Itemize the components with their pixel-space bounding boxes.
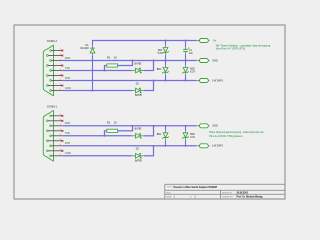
schottky diode D3 BAT85: [132, 88, 144, 93]
svg-text:GND: GND: [212, 59, 218, 62]
svg-text:DTR: DTR: [65, 141, 70, 145]
port terminal 1-W DATA: [196, 79, 209, 83]
schottky diode D2 BAT85: [132, 134, 144, 139]
pin 5: [50, 154, 62, 156]
svg-text:CONN-1: CONN-1: [47, 39, 58, 43]
wire riser GND row to DATA row: [153, 146, 155, 156]
junction: [185, 125, 187, 127]
svg-text:Ohne Spannungsversorgung - Dat: Ohne Spannungsversorgung - Data wird übe…: [209, 131, 264, 134]
junction: [165, 60, 167, 62]
no-connect pin 7: [62, 130, 64, 132]
svg-text:6: 6: [60, 54, 61, 56]
junction riser/DATA: [153, 80, 155, 82]
no-connect pin 9: [62, 150, 64, 152]
wire riser TXD to RXD row: [153, 126, 155, 136]
no-connect pin 7: [62, 65, 64, 67]
svg-text:RXD: RXD: [65, 121, 71, 125]
wire riser GND row to DATA row: [153, 81, 155, 91]
no-connect pin 8: [62, 140, 64, 142]
junction: [165, 145, 167, 147]
port terminal GND: [196, 59, 209, 63]
connector CONN-1 (DB9): [43, 110, 53, 161]
svg-text:1-W DATA: 1-W DATA: [212, 79, 223, 82]
wire GND pin net: [62, 155, 132, 157]
svg-text:über Pins 4+7 (DTR, RTS): über Pins 4+7 (DTR, RTS): [216, 48, 246, 51]
wire TXD net: [62, 70, 132, 72]
svg-text:1K: 1K: [114, 121, 117, 125]
resistor R1: [107, 64, 118, 67]
svg-text:GND: GND: [212, 125, 218, 128]
junction: [165, 80, 167, 82]
no-connect pin 6: [62, 120, 64, 122]
no-connect pin 6: [62, 55, 64, 57]
zener diode BD2: [182, 61, 188, 81]
wire R1 jog: [104, 131, 106, 136]
no-connect pin 8: [62, 75, 64, 77]
svg-text:7: 7: [60, 129, 61, 131]
pin 4: [50, 79, 62, 81]
junction R1/RXD: [132, 125, 134, 127]
pin 1: [50, 49, 62, 51]
schottky diode D3 BAT85: [132, 154, 144, 159]
svg-text:9: 9: [60, 84, 61, 86]
port terminal V+: [196, 39, 209, 43]
schottky diode D2 BAT85: [132, 68, 144, 73]
wire RXD / GND net: [62, 125, 196, 127]
capacitor C1: [183, 41, 189, 61]
svg-text:Passive 1-Wire Serial Adapter: Passive 1-Wire Serial Adapter DS9097: [174, 186, 218, 189]
svg-text:Prof. Dr. Michael Wasag: Prof. Dr. Michael Wasag: [237, 197, 264, 199]
wire D3 to riser: [144, 155, 154, 157]
title block: [165, 184, 285, 198]
junction: [165, 40, 167, 42]
wire V+ rail: [93, 40, 197, 42]
wire TXD net: [62, 135, 132, 137]
svg-text:R1: R1: [107, 121, 111, 125]
resistor R1: [107, 129, 118, 132]
zener diode BD2: [182, 126, 188, 146]
svg-text:6.2V: 6.2V: [190, 136, 195, 139]
zener diode BD1: [162, 61, 168, 81]
port terminal 1-W DATA: [196, 144, 209, 148]
zener diode BD1: [162, 126, 168, 146]
svg-text:CONN-1: CONN-1: [47, 105, 58, 109]
no-connect pin 1: [62, 50, 64, 52]
svg-text:8: 8: [60, 74, 61, 76]
svg-text:1: 1: [60, 49, 61, 51]
connector CONN-1 (DB9): [43, 45, 53, 96]
svg-text:6.2V: 6.2V: [190, 71, 195, 74]
svg-text:5: 5: [60, 154, 61, 156]
svg-text:5.6V: 5.6V: [157, 52, 162, 55]
svg-text:GND: GND: [65, 86, 71, 90]
svg-text:1-W DATA: 1-W DATA: [212, 145, 223, 148]
junction: [185, 40, 187, 42]
svg-text:4: 4: [60, 79, 61, 81]
junction: [185, 145, 187, 147]
svg-text:PAGE:: PAGE:: [166, 195, 172, 198]
wire riser R1 to RXD row: [132, 61, 134, 66]
svg-text:R1: R1: [107, 55, 111, 59]
svg-text:2: 2: [60, 59, 61, 61]
pin 7: [47, 129, 63, 131]
junction: [185, 80, 187, 82]
svg-text:1N4148: 1N4148: [80, 47, 89, 50]
svg-text:1: 1: [60, 114, 61, 116]
junction R1/TXD: [104, 135, 106, 137]
svg-text:BD1: BD1: [157, 68, 162, 71]
wire riser TXD to RXD row: [153, 61, 155, 71]
pin 9: [47, 84, 63, 86]
pin 9: [47, 149, 63, 151]
svg-text:2: 2: [60, 124, 61, 126]
wire R1 to riser: [118, 65, 133, 67]
pin 6: [47, 119, 63, 121]
svg-text:BD1: BD1: [157, 133, 162, 136]
diode D1: [90, 41, 95, 91]
svg-text:TXD: TXD: [65, 66, 70, 70]
junction riser/DATA: [153, 145, 155, 147]
svg-text:BAT85: BAT85: [135, 159, 143, 162]
svg-text:TITLE:: TITLE:: [167, 187, 173, 189]
pin 3: [50, 69, 62, 71]
wire riser R1 to RXD row: [132, 126, 134, 131]
pin 5: [50, 89, 62, 91]
title block texts: [166, 186, 263, 199]
wire D2 to riser: [144, 70, 154, 72]
svg-text:10u: 10u: [189, 52, 194, 55]
port terminal GND: [196, 124, 209, 128]
pin 7: [47, 64, 63, 66]
svg-text:3: 3: [60, 69, 61, 71]
pin 1: [50, 114, 62, 116]
svg-text:BAT85: BAT85: [135, 94, 143, 97]
pin 8: [47, 74, 63, 76]
junction riser/RXD: [153, 60, 155, 62]
junction R1/TXD: [104, 70, 106, 72]
wire D3 to riser: [144, 90, 154, 92]
sheet frame: [14, 25, 285, 199]
junction R1/RXD: [132, 60, 134, 62]
svg-text:8: 8: [60, 139, 61, 141]
svg-text:DRAWN BY:: DRAWN BY:: [222, 195, 234, 198]
svg-text:1K: 1K: [114, 55, 117, 59]
svg-text:3: 3: [60, 134, 61, 136]
svg-text:20.08.2001: 20.08.2001: [237, 192, 249, 194]
svg-text:FILE:: FILE:: [166, 192, 171, 194]
zener diode ZD1: [162, 41, 168, 61]
junction: [165, 125, 167, 127]
svg-text:TXD: TXD: [65, 131, 70, 135]
pin 2: [50, 124, 62, 126]
svg-text:GND: GND: [65, 151, 71, 155]
wire RXD / GND net: [62, 60, 196, 62]
wire D2 to riser: [144, 135, 154, 137]
svg-text:5: 5: [60, 89, 61, 91]
wire R1 jog: [104, 66, 106, 71]
svg-text:4: 4: [60, 144, 61, 146]
svg-text:6: 6: [60, 119, 61, 121]
pin 4: [50, 144, 62, 146]
svg-text:DTR: DTR: [65, 76, 70, 80]
no-connect pin 9: [62, 85, 64, 87]
pin 8: [47, 139, 63, 141]
junction D1/GND row: [92, 90, 94, 92]
wire GND pin net: [62, 90, 132, 92]
no-connect pin 1: [62, 115, 64, 117]
svg-text:7: 7: [60, 64, 61, 66]
pin 2: [50, 59, 62, 61]
svg-text:BAT85: BAT85: [135, 62, 143, 65]
junction: [185, 60, 187, 62]
pin 6: [47, 54, 63, 56]
pin 3: [50, 134, 62, 136]
svg-text:REVISION:: REVISION:: [222, 192, 233, 194]
svg-text:9: 9: [60, 149, 61, 151]
svg-text:RXD: RXD: [65, 56, 71, 60]
wire DTR / 1-W DATA net: [62, 145, 196, 147]
svg-text:Pins 2+3 (RXD, TXD) gelesen: Pins 2+3 (RXD, TXD) gelesen: [209, 135, 243, 138]
svg-text:BAT85: BAT85: [135, 128, 143, 131]
junction riser/RXD: [153, 125, 155, 127]
wire DTR / 1-W DATA net: [62, 80, 196, 82]
wire R1 to riser: [118, 130, 133, 132]
